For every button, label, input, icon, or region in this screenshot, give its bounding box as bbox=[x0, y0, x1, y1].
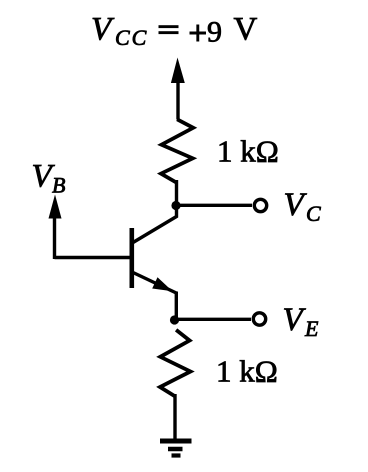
svg-text:V: V bbox=[283, 302, 307, 338]
VCC supply arrow bbox=[171, 58, 185, 120]
VB arrow bbox=[49, 195, 62, 260]
ground bbox=[160, 441, 192, 456]
resistor R1 bbox=[161, 119, 193, 182]
label VC bbox=[284, 187, 322, 226]
resistor R2 bbox=[160, 330, 191, 397]
wire: emitter node to VE terminal bbox=[175, 318, 252, 321]
label VB bbox=[32, 159, 66, 198]
wire: R2 to ground bbox=[173, 394, 176, 441]
wire: emitter to node bbox=[175, 292, 178, 321]
terminal VE (open circle) bbox=[253, 313, 265, 325]
node: collector junction bbox=[171, 201, 180, 210]
svg-text:9: 9 bbox=[207, 16, 222, 49]
svg-text:B: B bbox=[52, 173, 65, 198]
svg-text:E: E bbox=[304, 316, 319, 341]
svg-text:V: V bbox=[91, 12, 115, 48]
svg-text:V: V bbox=[234, 12, 258, 48]
label VCC = +9 V bbox=[91, 12, 258, 51]
wire: R1 to collector node bbox=[175, 180, 178, 205]
transistor Q1 (NPN) bbox=[132, 209, 177, 293]
svg-text:1 kΩ: 1 kΩ bbox=[217, 134, 279, 169]
wire: base bbox=[55, 256, 131, 259]
svg-text:1 kΩ: 1 kΩ bbox=[216, 354, 278, 389]
wire: collector node to VC terminal bbox=[176, 204, 252, 207]
terminal VC (open circle) bbox=[254, 199, 266, 211]
svg-text:C: C bbox=[306, 201, 321, 226]
label VE bbox=[283, 302, 320, 341]
svg-text:CC: CC bbox=[115, 25, 148, 50]
node: emitter junction bbox=[170, 315, 179, 324]
svg-text:V: V bbox=[284, 187, 308, 223]
